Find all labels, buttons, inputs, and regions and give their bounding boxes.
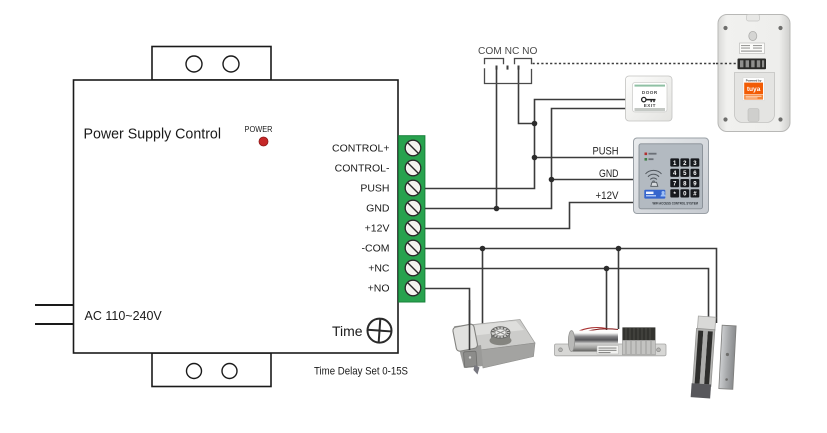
svg-text:+12V: +12V (365, 223, 390, 235)
svg-text:GND: GND (599, 168, 619, 180)
svg-text:DOOR: DOOR (642, 90, 658, 95)
svg-text:+NC: +NC (368, 263, 390, 275)
svg-text:POWER: POWER (245, 124, 273, 134)
svg-text:Power Supply Control: Power Supply Control (84, 127, 222, 143)
svg-text:WIFI ACCESS CONTROL SYSTEM: WIFI ACCESS CONTROL SYSTEM (653, 201, 699, 205)
svg-text:PUSH: PUSH (360, 183, 389, 195)
svg-text:CONTROL-: CONTROL- (335, 163, 390, 175)
svg-text:tuya: tuya (747, 86, 761, 93)
svg-text:EXIT: EXIT (644, 103, 656, 108)
svg-text:Powered by: Powered by (746, 79, 762, 83)
svg-text:GND: GND (366, 203, 390, 215)
svg-text:CONTROL+: CONTROL+ (332, 143, 389, 155)
svg-text:COM NC NO: COM NC NO (478, 46, 537, 57)
svg-text:AC 110~240V: AC 110~240V (85, 309, 163, 323)
svg-text:+12V: +12V (596, 190, 620, 202)
svg-text:PUSH: PUSH (593, 146, 619, 158)
svg-text:Time Delay Set 0-15S: Time Delay Set 0-15S (314, 366, 408, 378)
svg-text:Time: Time (332, 323, 363, 339)
svg-text:-COM: -COM (362, 243, 390, 255)
svg-text:+NO: +NO (368, 283, 390, 295)
